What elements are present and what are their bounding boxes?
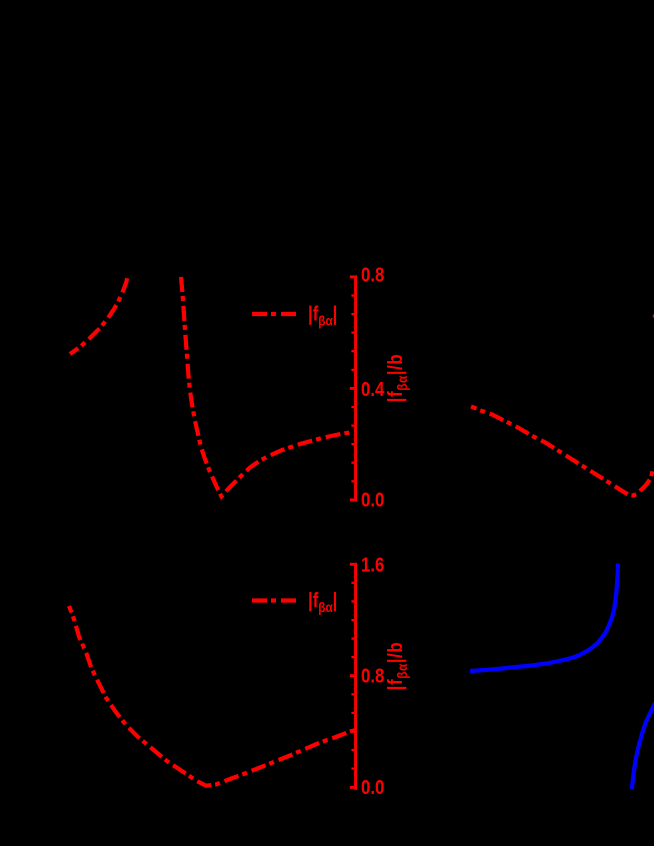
sliver of steep tail clipped at right edge [653, 315, 654, 318]
top-right curve (descending to min near right edge then steep rise) [471, 406, 653, 495]
blue curve branch 1 (rises to +inf at x~618) [470, 564, 618, 672]
blue curve branch 2 (from -inf at bottom) [632, 703, 654, 789]
bottom legend line [252, 598, 299, 602]
bottom tick labels [361, 553, 384, 798]
bottom red right-spine [350, 563, 357, 790]
major ticks top axis [350, 275, 354, 278]
top red right-spine [350, 275, 357, 501]
minor ticks bottom axis [351, 582, 354, 584]
top-left curve branch B (descending, min, rise to axis) [181, 273, 356, 497]
svg-text:0.0: 0.0 [361, 776, 384, 799]
minor ticks top axis [351, 294, 354, 296]
svg-text:0.8: 0.8 [361, 664, 384, 687]
bottom-left curve (descending to min then rise to axis) [69, 606, 356, 786]
top-left curve branch A (rising) [70, 276, 128, 355]
top legend line [252, 312, 299, 316]
top tick labels [361, 263, 385, 511]
svg-text:0.0: 0.0 [361, 488, 384, 511]
major ticks bottom axis [350, 563, 354, 566]
svg-text:0.8: 0.8 [361, 263, 384, 286]
svg-text:1.6: 1.6 [361, 553, 384, 576]
svg-text:0.4: 0.4 [361, 378, 385, 401]
